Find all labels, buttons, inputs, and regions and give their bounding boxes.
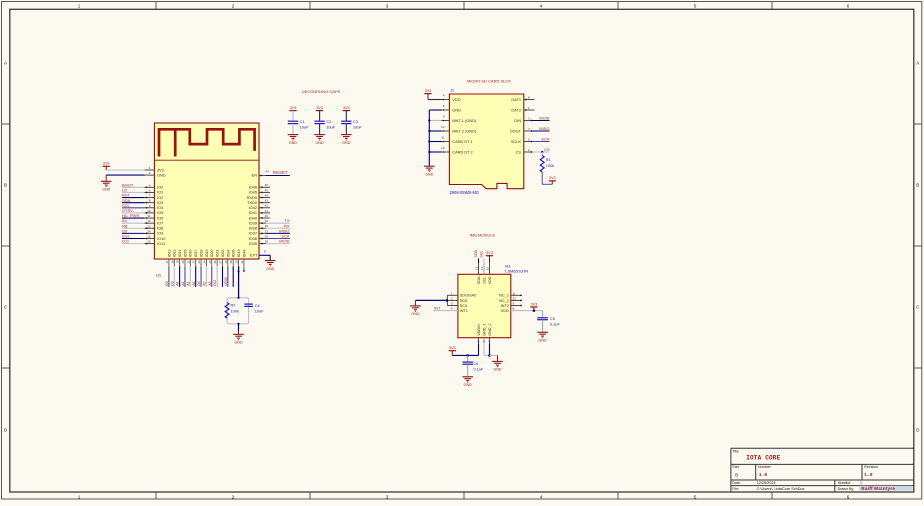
svg-text:40: 40 (265, 214, 269, 218)
svg-text:Number: Number (758, 465, 772, 469)
svg-text:GND: GND (289, 141, 298, 145)
svg-text:GND_2: GND_2 (488, 324, 492, 336)
svg-text:EN: EN (252, 173, 258, 178)
svg-text:10nF: 10nF (255, 309, 264, 314)
svg-text:4: 4 (540, 3, 543, 8)
svg-text:3V3: 3V3 (343, 106, 350, 110)
svg-text:CS: CS (544, 147, 550, 152)
svg-text:3: 3 (386, 3, 389, 8)
svg-text:U1: U1 (156, 272, 162, 277)
svg-text:26: 26 (213, 260, 217, 263)
svg-text:C2: C2 (326, 119, 331, 124)
svg-text:3V3: 3V3 (425, 89, 432, 93)
svg-text:IO16: IO16 (189, 250, 193, 258)
svg-text:45: 45 (265, 188, 269, 192)
svg-text:DAT1: DAT1 (511, 97, 521, 102)
svg-text:CARD DT 2: CARD DT 2 (452, 149, 472, 154)
svg-text:GND: GND (464, 383, 473, 387)
svg-text:12: 12 (513, 296, 517, 300)
svg-text:INT1: INT1 (460, 308, 468, 313)
svg-text:41: 41 (265, 209, 269, 213)
svg-text:39: 39 (265, 219, 269, 223)
svg-text:VDD: VDD (452, 97, 460, 102)
svg-text:11: 11 (147, 214, 150, 218)
svg-text:D11: D11 (122, 239, 130, 244)
svg-text:GND: GND (157, 173, 166, 178)
svg-text:1.0: 1.0 (864, 472, 873, 478)
svg-text:EXT: EXT (250, 253, 258, 258)
svg-text:GND: GND (266, 267, 275, 271)
svg-text:3V3: 3V3 (531, 302, 538, 306)
svg-text:16: 16 (147, 240, 151, 244)
svg-text:DAT2: DAT2 (511, 107, 521, 112)
svg-text:B: B (735, 472, 738, 477)
svg-text:IO48: IO48 (242, 250, 246, 258)
svg-text:VDD: VDD (488, 276, 492, 284)
svg-text:IO45: IO45 (237, 250, 241, 258)
svg-text:44: 44 (266, 170, 270, 174)
svg-text:DECOUPLING CAPS: DECOUPLING CAPS (302, 89, 341, 94)
svg-text:37: 37 (265, 229, 269, 233)
svg-text:IO17: IO17 (194, 250, 198, 258)
svg-text:IO26: IO26 (232, 250, 236, 258)
svg-text:B: B (916, 183, 919, 188)
svg-text:Raiff McIntyre: Raiff McIntyre (861, 486, 895, 491)
svg-text:10uF: 10uF (300, 125, 309, 130)
svg-text:6: 6 (847, 3, 850, 8)
svg-text:Date:: Date: (732, 481, 741, 485)
svg-text:File:: File: (732, 487, 739, 491)
svg-text:30: 30 (235, 260, 239, 263)
svg-text:3V3: 3V3 (316, 106, 323, 110)
svg-text:CARD DT 1: CARD DT 1 (452, 139, 472, 144)
svg-text:SCLK: SCLK (511, 139, 522, 144)
svg-text:GND: GND (234, 341, 243, 345)
svg-text:3V3: 3V3 (290, 106, 297, 110)
svg-text:100k: 100k (231, 308, 239, 313)
svg-text:3V3: 3V3 (486, 251, 493, 255)
svg-text:IMU MODULE: IMU MODULE (470, 232, 496, 237)
svg-text:28: 28 (224, 260, 228, 263)
svg-text:A2: A2 (181, 281, 185, 285)
svg-text:R1: R1 (546, 157, 551, 162)
svg-text:10: 10 (441, 125, 445, 129)
svg-text:43: 43 (265, 199, 269, 203)
svg-text:VDDIO: VDDIO (477, 324, 481, 336)
svg-text:13: 13 (474, 267, 478, 271)
svg-text:MOSI: MOSI (539, 116, 549, 121)
svg-text:15: 15 (485, 267, 489, 271)
svg-text:A5: A5 (208, 281, 212, 285)
svg-text:1: 1 (78, 494, 81, 499)
svg-text:IO19: IO19 (205, 250, 209, 258)
svg-text:46: 46 (265, 183, 269, 187)
svg-text:25: 25 (208, 260, 212, 263)
svg-text:IOTA CORE: IOTA CORE (746, 455, 780, 462)
svg-text:10: 10 (147, 209, 151, 213)
svg-text:1: 1 (860, 481, 862, 485)
svg-text:100k: 100k (546, 163, 554, 168)
svg-text:IO11: IO11 (157, 241, 165, 246)
svg-text:A6: A6 (192, 281, 196, 285)
svg-text:19: 19 (176, 260, 180, 263)
svg-text:D3: D3 (170, 281, 174, 286)
svg-text:MISO: MISO (539, 126, 549, 131)
svg-text:2908-05WB-MG: 2908-05WB-MG (450, 190, 480, 195)
svg-text:11: 11 (441, 136, 444, 140)
svg-text:12: 12 (147, 219, 151, 223)
svg-text:SCL: SCL (482, 277, 486, 284)
svg-text:17: 17 (165, 260, 169, 263)
svg-text:42: 42 (265, 204, 269, 208)
svg-text:IO15: IO15 (183, 250, 187, 258)
svg-text:2: 2 (232, 3, 235, 8)
svg-text:14: 14 (480, 267, 484, 271)
svg-text:GND: GND (102, 188, 111, 192)
svg-text:A1: A1 (203, 281, 207, 285)
svg-text:GND_1: GND_1 (482, 324, 486, 336)
svg-text:DIN: DIN (514, 118, 521, 123)
svg-text:10uF: 10uF (326, 125, 335, 130)
svg-text:C5: C5 (550, 316, 555, 321)
svg-text:MNT 1 (GND): MNT 1 (GND) (452, 118, 477, 123)
svg-text:IO35: IO35 (249, 241, 257, 246)
svg-text:LED2: LED2 (224, 277, 228, 286)
svg-text:MNT 2 (GND): MNT 2 (GND) (452, 128, 477, 133)
svg-text:44: 44 (265, 193, 269, 197)
svg-text:SDA: SDA (474, 249, 478, 257)
svg-text:GND: GND (538, 339, 547, 343)
svg-text:SDA: SDA (477, 276, 481, 284)
svg-text:A4: A4 (176, 281, 180, 285)
svg-text:20: 20 (181, 260, 185, 263)
svg-text:3V3: 3V3 (549, 176, 556, 180)
svg-text:CS: CS (516, 149, 522, 154)
svg-text:D4: D4 (197, 281, 201, 286)
svg-text:C:\Users\..\IotaCore.SchDoc: C:\Users\..\IotaCore.SchDoc (757, 487, 805, 491)
svg-text:3: 3 (386, 494, 389, 499)
svg-text:MOSI: MOSI (279, 239, 289, 244)
svg-text:21: 21 (186, 260, 190, 263)
svg-text:SCL: SCL (479, 250, 483, 257)
svg-text:Title: Title (732, 450, 739, 454)
svg-text:1.0: 1.0 (759, 472, 768, 478)
svg-text:12/26/2024: 12/26/2024 (757, 481, 776, 485)
svg-text:14: 14 (147, 229, 151, 233)
svg-text:15: 15 (147, 235, 151, 239)
svg-text:Revision: Revision (864, 465, 878, 469)
svg-text:IO34: IO34 (226, 250, 230, 258)
svg-text:11: 11 (513, 291, 516, 295)
svg-text:C1: C1 (300, 119, 305, 124)
svg-text:IO21: IO21 (216, 250, 220, 258)
svg-text:35: 35 (265, 240, 269, 244)
svg-text:GND: GND (411, 312, 420, 316)
svg-text:C6: C6 (473, 361, 478, 366)
svg-text:0.1uF: 0.1uF (550, 322, 561, 327)
svg-text:36: 36 (265, 234, 269, 238)
svg-text:5: 5 (694, 3, 697, 8)
svg-text:B: B (4, 183, 7, 188)
svg-text:C4: C4 (255, 303, 261, 308)
svg-text:D2: D2 (165, 281, 169, 286)
svg-text:3V3: 3V3 (449, 346, 456, 350)
svg-text:IO14: IO14 (178, 250, 182, 258)
svg-text:2: 2 (232, 494, 235, 499)
svg-text:MICRO SD CARD SLOT: MICRO SD CARD SLOT (467, 78, 512, 83)
svg-text:IO12: IO12 (167, 250, 171, 258)
svg-text:A3: A3 (186, 281, 190, 285)
svg-text:VDD: VDD (501, 308, 509, 313)
svg-text:4: 4 (540, 494, 543, 499)
svg-text:12: 12 (441, 146, 445, 150)
svg-text:10uF: 10uF (353, 125, 362, 130)
svg-text:GND: GND (425, 173, 434, 177)
svg-text:GND: GND (452, 107, 461, 112)
svg-text:LSM6DS3TR: LSM6DS3TR (505, 269, 528, 274)
svg-text:38: 38 (265, 224, 269, 228)
svg-text:0.1uF: 0.1uF (473, 367, 484, 372)
svg-text:IO20: IO20 (210, 250, 214, 258)
svg-text:Drawn By:: Drawn By: (838, 487, 855, 491)
svg-text:GND: GND (342, 141, 351, 145)
svg-text:GND: GND (315, 141, 324, 145)
svg-text:of: of (847, 481, 850, 485)
svg-text:29: 29 (229, 260, 233, 263)
svg-text:C3: C3 (353, 119, 358, 124)
svg-text:RESET: RESET (273, 170, 288, 175)
svg-text:INT: INT (434, 307, 441, 311)
svg-text:Size: Size (732, 465, 739, 469)
svg-text:27: 27 (219, 260, 223, 263)
svg-text:IO18: IO18 (199, 250, 203, 258)
svg-text:D11: D11 (213, 280, 217, 286)
svg-text:5: 5 (694, 494, 697, 499)
svg-text:22: 22 (192, 260, 196, 263)
svg-text:23: 23 (197, 260, 201, 263)
svg-text:IO13: IO13 (173, 250, 177, 258)
svg-text:24: 24 (202, 260, 206, 263)
svg-text:R2: R2 (231, 303, 236, 308)
svg-text:SCK: SCK (541, 137, 550, 142)
svg-text:3V3: 3V3 (103, 162, 110, 166)
svg-text:31: 31 (240, 260, 244, 263)
svg-text:18: 18 (170, 260, 174, 263)
svg-text:13: 13 (147, 224, 151, 228)
svg-text:GND: GND (493, 368, 502, 372)
svg-text:DOUT: DOUT (510, 128, 522, 133)
svg-text:1: 1 (78, 3, 81, 8)
svg-text:6: 6 (847, 494, 850, 499)
svg-text:IO33: IO33 (221, 250, 225, 258)
